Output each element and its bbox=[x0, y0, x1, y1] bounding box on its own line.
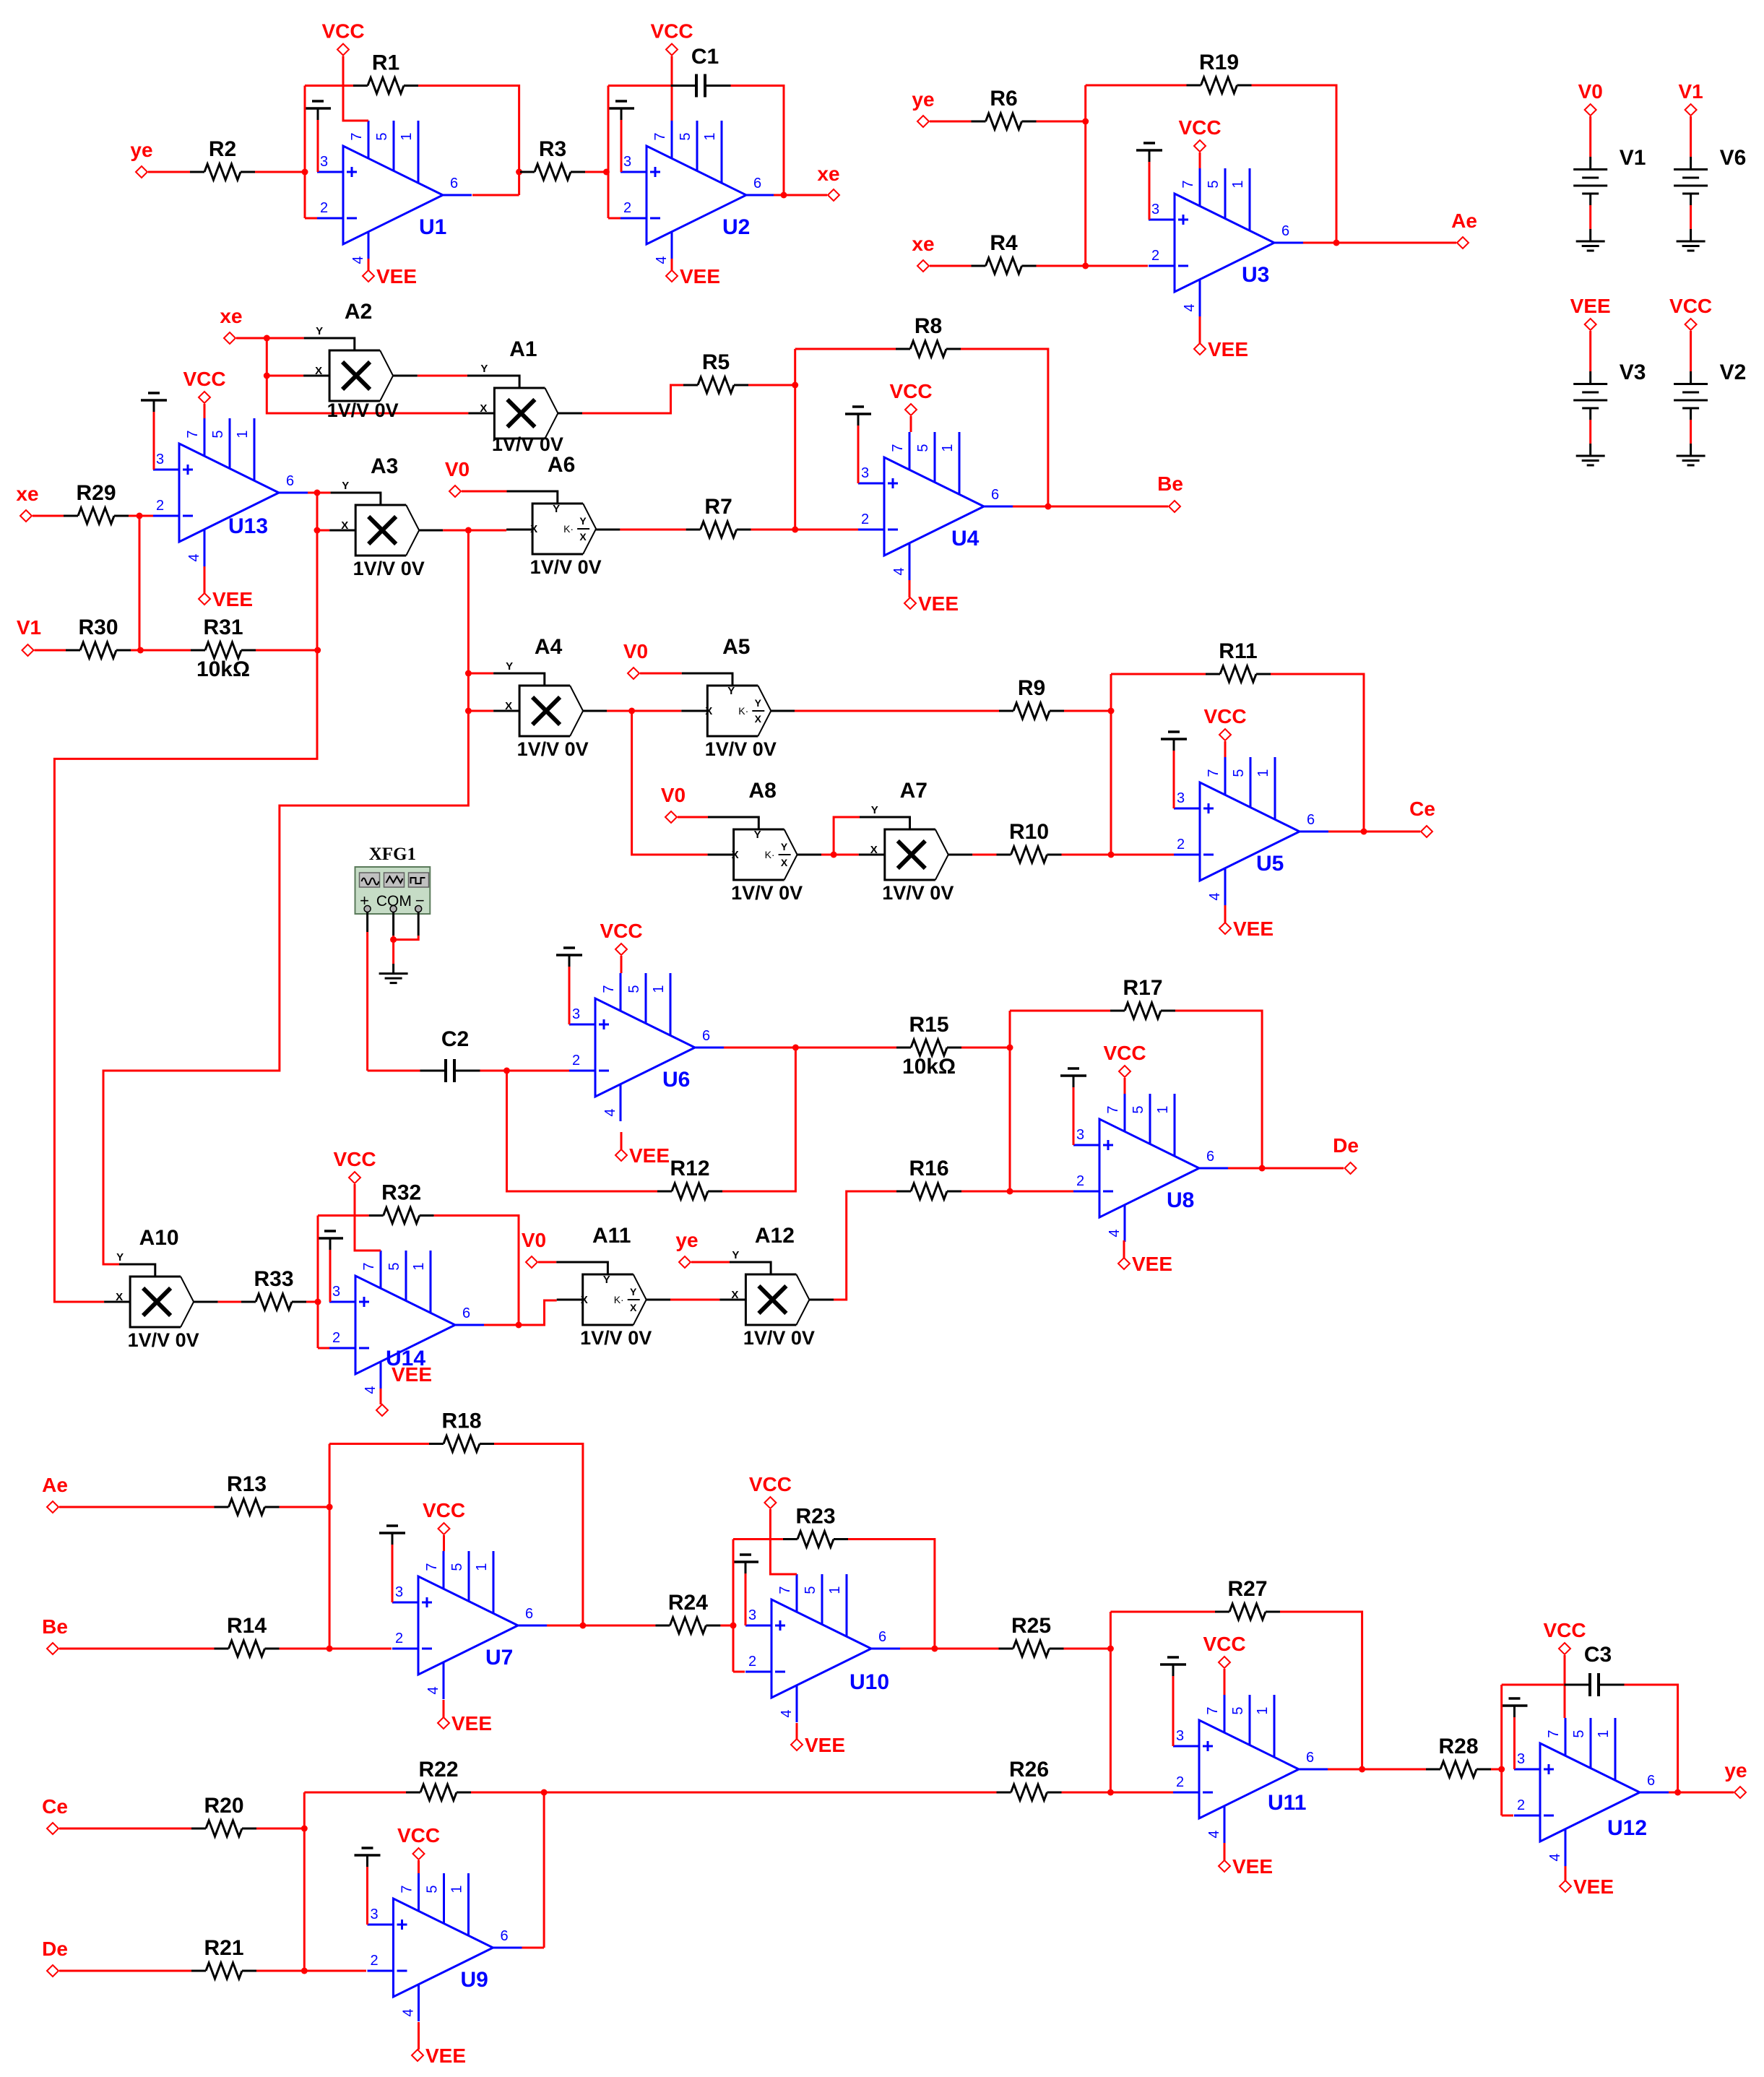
wire U11 input vertical bbox=[1110, 1612, 1112, 1792]
wire U12 pin4 to VEE bbox=[1565, 1866, 1567, 1880]
wire A4 X feed bbox=[468, 710, 493, 712]
wire U12 output to ye bbox=[1678, 1792, 1734, 1794]
svg-text:1: 1 bbox=[411, 1262, 427, 1270]
wire U7 feedback rail left bbox=[329, 1443, 429, 1445]
wire U5 pin4 to VEE bbox=[1224, 905, 1227, 923]
svg-text:3: 3 bbox=[861, 465, 869, 481]
op-amp U5 bbox=[1174, 757, 1328, 905]
wire U4 pin4 to VEE bbox=[909, 580, 911, 597]
terminal xe (A2 input) bbox=[220, 305, 242, 344]
terminal xe (R29 input) bbox=[16, 483, 38, 522]
wire U7 pin6 bbox=[547, 1625, 583, 1627]
svg-text:VEE: VEE bbox=[1570, 295, 1611, 317]
resistor R1 bbox=[353, 51, 418, 94]
svg-text:De: De bbox=[1333, 1134, 1359, 1157]
wire U12 pin2 bbox=[1502, 1815, 1513, 1817]
svg-text:ye: ye bbox=[912, 88, 934, 111]
wire U2 feedback rail left bbox=[608, 85, 671, 87]
wire U11 out to R28 bbox=[1362, 1769, 1426, 1771]
svg-text:6: 6 bbox=[753, 176, 761, 191]
wire U4 input vertical bbox=[794, 349, 796, 530]
svg-text:5: 5 bbox=[678, 132, 693, 140]
resistor R27 bbox=[1215, 1577, 1280, 1620]
svg-text:R9: R9 bbox=[1018, 676, 1045, 700]
svg-text:7: 7 bbox=[185, 430, 201, 438]
svg-text:7: 7 bbox=[890, 444, 906, 452]
wire A5 X feed bbox=[632, 710, 682, 712]
wire xe node vertical bbox=[267, 338, 468, 413]
svg-text:4: 4 bbox=[401, 2008, 417, 2016]
resistor R28 bbox=[1426, 1735, 1491, 1777]
wire U10 pin4 to VEE bbox=[796, 1723, 798, 1739]
wire U2 pin2 bbox=[608, 217, 621, 220]
svg-text:4: 4 bbox=[1207, 892, 1223, 900]
multiplier A2 bbox=[267, 300, 398, 421]
terminal Be (output) bbox=[1157, 472, 1183, 512]
svg-text:1: 1 bbox=[235, 430, 251, 438]
wire U3 pin6 bbox=[1303, 242, 1336, 244]
svg-text:R24: R24 bbox=[668, 1591, 708, 1615]
multiplier A1 bbox=[467, 337, 563, 455]
divider A11 bbox=[556, 1224, 652, 1349]
power VEE (U7) bbox=[438, 1712, 492, 1735]
svg-text:U7: U7 bbox=[485, 1646, 513, 1670]
svg-text:A8: A8 bbox=[748, 779, 776, 803]
power VEE (U13) bbox=[199, 588, 253, 610]
svg-text:A5: A5 bbox=[722, 635, 750, 659]
node U1 inverting input (junction) bbox=[302, 169, 308, 176]
resistor R7 bbox=[686, 495, 751, 537]
wire U14 out to A11 X bbox=[519, 1300, 557, 1325]
node U3 output (junction) bbox=[1333, 240, 1340, 246]
wire R12 to U6 output bbox=[722, 1048, 795, 1191]
wire A7 X feed bbox=[834, 854, 859, 856]
svg-text:7: 7 bbox=[424, 1563, 440, 1571]
power VCC (U4) bbox=[889, 380, 932, 415]
wire R15 to U8 node bbox=[961, 1047, 1010, 1049]
svg-text:U10: U10 bbox=[849, 1670, 889, 1694]
svg-text:1V/V 0V: 1V/V 0V bbox=[731, 882, 803, 904]
svg-text:V1: V1 bbox=[1620, 146, 1646, 170]
svg-text:5: 5 bbox=[449, 1563, 465, 1571]
svg-text:VCC: VCC bbox=[650, 20, 693, 43]
op-amp U2 bbox=[621, 121, 775, 269]
wire V0 to A11 Y bbox=[538, 1261, 556, 1264]
wire U14 pin2 bbox=[318, 1347, 329, 1350]
svg-text:VEE: VEE bbox=[805, 1734, 845, 1756]
svg-text:1: 1 bbox=[1155, 1105, 1171, 1113]
wire R1 to U1 output bbox=[418, 86, 519, 196]
svg-text:2: 2 bbox=[320, 200, 328, 216]
svg-text:R11: R11 bbox=[1219, 639, 1257, 663]
wire U8 pin6 bbox=[1228, 1167, 1262, 1170]
node U8 output junction bbox=[1259, 1165, 1266, 1172]
svg-text:2: 2 bbox=[1076, 1173, 1084, 1189]
svg-text:5: 5 bbox=[1130, 1105, 1146, 1113]
svg-text:VCC: VCC bbox=[423, 1499, 465, 1521]
wire R3 to U2 node bbox=[585, 171, 606, 173]
svg-text:U1: U1 bbox=[419, 215, 446, 239]
ground (XFG1) bbox=[379, 974, 408, 983]
svg-text:U4: U4 bbox=[951, 527, 980, 550]
svg-text:5: 5 bbox=[915, 444, 931, 452]
wire VCC to U12 pin7 bbox=[1564, 1655, 1566, 1718]
svg-text:3: 3 bbox=[156, 452, 164, 467]
wire U6 node down to R12 bbox=[507, 1071, 658, 1191]
op-amp U8 bbox=[1073, 1094, 1228, 1242]
wire U2 input node vertical bbox=[608, 86, 610, 219]
svg-text:7: 7 bbox=[1206, 769, 1222, 777]
ground (U4 pin3) bbox=[845, 407, 871, 483]
wire R9 to U5 node bbox=[1064, 710, 1111, 712]
svg-text:4: 4 bbox=[891, 567, 907, 575]
wire R11 to U5 output bbox=[1271, 674, 1364, 832]
svg-text:R22: R22 bbox=[418, 1758, 458, 1782]
wire VCC to U11 pin7 bbox=[1224, 1669, 1226, 1695]
svg-text:V3: V3 bbox=[1620, 360, 1646, 384]
svg-text:Y: Y bbox=[732, 1249, 739, 1261]
svg-text:VEE: VEE bbox=[1233, 917, 1274, 940]
wire U9 pin2 bbox=[304, 1970, 366, 1972]
wire R29 node down bbox=[139, 516, 141, 650]
wire ye to R2 bbox=[148, 171, 190, 173]
resistor R3 bbox=[520, 137, 585, 180]
svg-text:5: 5 bbox=[1230, 1706, 1246, 1714]
node U7 output junction bbox=[579, 1623, 586, 1629]
svg-text:1V/V 0V: 1V/V 0V bbox=[882, 882, 954, 904]
svg-text:R23: R23 bbox=[795, 1505, 835, 1529]
svg-text:10kΩ: 10kΩ bbox=[196, 657, 250, 681]
svg-text:R10: R10 bbox=[1009, 820, 1049, 844]
svg-text:VCC: VCC bbox=[1203, 705, 1246, 727]
wire A4 output bbox=[583, 710, 632, 712]
svg-text:R5: R5 bbox=[702, 350, 730, 374]
svg-text:6: 6 bbox=[462, 1305, 470, 1321]
svg-text:R13: R13 bbox=[227, 1472, 267, 1496]
wire VCC to U5 pin7 bbox=[1224, 741, 1227, 757]
svg-text:2: 2 bbox=[572, 1053, 580, 1068]
node R15 junction (U8) bbox=[1007, 1045, 1013, 1051]
svg-text:R28: R28 bbox=[1438, 1735, 1478, 1758]
wire R8 to U4 output bbox=[961, 349, 1048, 506]
svg-text:6: 6 bbox=[286, 473, 294, 489]
svg-text:VCC: VCC bbox=[1103, 1042, 1146, 1064]
ground (U10 pin3) bbox=[732, 1555, 758, 1625]
svg-text:Y: Y bbox=[630, 1286, 637, 1297]
svg-text:1: 1 bbox=[1230, 180, 1246, 188]
wire U9 pin6 bbox=[522, 1947, 545, 1949]
ground (U5 pin3) bbox=[1161, 732, 1187, 808]
svg-text:U13: U13 bbox=[228, 514, 268, 538]
svg-text:5: 5 bbox=[425, 1885, 441, 1893]
wire U10 input vertical bbox=[732, 1540, 735, 1672]
power VCC (U7) bbox=[423, 1499, 465, 1534]
resistor R25 bbox=[999, 1614, 1064, 1657]
resistor R29 bbox=[64, 481, 129, 524]
node A4 output junction bbox=[628, 708, 635, 714]
svg-text:5: 5 bbox=[803, 1586, 818, 1594]
resistor R2 bbox=[190, 137, 255, 180]
multiplier A3 bbox=[329, 454, 425, 579]
node R25 junction (U11) bbox=[1107, 1646, 1114, 1652]
wire U7 input vertical bbox=[329, 1444, 331, 1649]
svg-text:VCC: VCC bbox=[600, 920, 642, 942]
power VCC (U9) bbox=[397, 1824, 440, 1860]
svg-text:R7: R7 bbox=[704, 495, 732, 519]
svg-text:xe: xe bbox=[817, 163, 839, 185]
svg-text:VEE: VEE bbox=[376, 265, 417, 288]
svg-text:5: 5 bbox=[374, 132, 390, 140]
wire R4 to U3 node bbox=[1037, 265, 1086, 267]
svg-text:U6: U6 bbox=[662, 1068, 690, 1092]
svg-text:2: 2 bbox=[748, 1654, 756, 1670]
node A2 X junction bbox=[264, 373, 270, 379]
svg-text:X: X bbox=[630, 1302, 637, 1313]
resistor R31 bbox=[191, 616, 256, 681]
terminal V0 (A11 Y) bbox=[522, 1229, 546, 1268]
node R3 tap (junction) bbox=[516, 169, 522, 176]
node U14 input junction bbox=[315, 1299, 321, 1305]
wire U6 pin6 bbox=[724, 1047, 795, 1049]
resistor R15 bbox=[896, 1013, 961, 1079]
wire VCC to U3 pin7 bbox=[1199, 152, 1201, 168]
wire C1 to U2 output bbox=[731, 86, 784, 196]
svg-text:X: X bbox=[579, 531, 587, 543]
wire U14 feedback rail left bbox=[318, 1214, 369, 1217]
wire U7 pin4 to VEE bbox=[443, 1700, 445, 1717]
terminal De (output) bbox=[1333, 1134, 1359, 1174]
wire U11 pin6 bbox=[1328, 1769, 1362, 1771]
power VCC (U8) bbox=[1103, 1042, 1146, 1077]
svg-text:1V/V 0V: 1V/V 0V bbox=[353, 558, 425, 579]
op-amp U14 bbox=[329, 1251, 484, 1399]
svg-text:ye: ye bbox=[675, 1229, 698, 1251]
svg-text:R3: R3 bbox=[539, 137, 566, 161]
svg-text:U2: U2 bbox=[722, 215, 750, 239]
resistor R26 bbox=[997, 1758, 1062, 1800]
wire A3 output bbox=[419, 530, 468, 532]
svg-text:1: 1 bbox=[1255, 1706, 1271, 1714]
terminal ye (A12 Y) bbox=[675, 1229, 698, 1268]
wire U3 output to Ae bbox=[1336, 242, 1456, 244]
svg-text:VCC: VCC bbox=[1669, 295, 1712, 317]
terminal Ae (input) bbox=[42, 1474, 68, 1513]
wire R23 to U10 output bbox=[848, 1540, 935, 1649]
svg-text:C1: C1 bbox=[691, 45, 719, 69]
svg-text:U11: U11 bbox=[1268, 1791, 1306, 1815]
svg-text:3: 3 bbox=[1151, 202, 1159, 217]
node U14 output junction bbox=[516, 1322, 522, 1329]
svg-text:5: 5 bbox=[210, 430, 226, 438]
svg-text:6: 6 bbox=[702, 1028, 710, 1044]
svg-text:3: 3 bbox=[572, 1006, 580, 1022]
resistor R21 bbox=[191, 1936, 256, 1979]
svg-text:2: 2 bbox=[371, 1953, 379, 1969]
ground (U11 pin3) bbox=[1160, 1657, 1186, 1746]
wire XFG1 minus bbox=[394, 912, 419, 940]
terminal ye (input) bbox=[130, 139, 152, 178]
wire U2 output to xe bbox=[784, 194, 827, 197]
node U5 output junction bbox=[1361, 829, 1367, 835]
svg-text:V0: V0 bbox=[522, 1229, 546, 1251]
resistor R8 bbox=[896, 314, 961, 357]
wire A8 output bbox=[797, 854, 834, 856]
wire xe to R4 bbox=[930, 265, 972, 267]
svg-text:1: 1 bbox=[940, 444, 956, 452]
svg-text:Y: Y bbox=[342, 480, 349, 492]
node A3 X junction bbox=[314, 527, 321, 534]
svg-text:5: 5 bbox=[1206, 180, 1222, 188]
wire VCC to U4 pin7 bbox=[910, 416, 912, 432]
svg-text:K·: K· bbox=[614, 1294, 624, 1305]
svg-text:Ce: Ce bbox=[42, 1795, 68, 1818]
svg-text:R29: R29 bbox=[76, 481, 116, 505]
wire A3 X feed bbox=[317, 530, 329, 532]
terminal Be (input) bbox=[42, 1615, 68, 1654]
svg-text:X: X bbox=[755, 713, 762, 725]
wire R5 to U4 node bbox=[748, 384, 795, 387]
svg-text:5: 5 bbox=[626, 985, 642, 993]
terminal V0 (A5 Y) bbox=[623, 640, 648, 679]
svg-text:V6: V6 bbox=[1720, 146, 1747, 170]
svg-text:V0: V0 bbox=[445, 458, 470, 480]
wire De to R21 bbox=[59, 1970, 191, 1972]
svg-text:2: 2 bbox=[1517, 1797, 1525, 1813]
wire U11 pin4 to VEE bbox=[1224, 1843, 1226, 1860]
svg-text:4: 4 bbox=[1547, 1853, 1563, 1861]
svg-text:Y: Y bbox=[727, 685, 735, 697]
svg-text:U12: U12 bbox=[1607, 1816, 1647, 1840]
node A2 Y junction bbox=[264, 335, 270, 342]
node R21/pin2 junction (U9) bbox=[301, 1968, 308, 1974]
wire R32 to U14 output bbox=[434, 1216, 519, 1326]
svg-text:A6: A6 bbox=[548, 453, 575, 477]
svg-text:Y: Y bbox=[754, 829, 761, 841]
wire R31 to trunk bbox=[256, 649, 318, 652]
svg-text:Be: Be bbox=[1157, 472, 1183, 495]
resistor R20 bbox=[191, 1794, 256, 1836]
node R29 junction bbox=[137, 513, 143, 519]
svg-text:K·: K· bbox=[563, 523, 574, 535]
svg-text:C2: C2 bbox=[441, 1027, 469, 1051]
svg-text:6: 6 bbox=[1306, 1750, 1314, 1766]
wire C3 to U12 output bbox=[1625, 1685, 1678, 1792]
node U2 inverting input (junction) bbox=[603, 169, 610, 176]
resistor R18 bbox=[429, 1409, 494, 1452]
resistor R10 bbox=[997, 820, 1062, 863]
wire R6 to U3 node bbox=[1037, 121, 1086, 123]
power VCC (U13) bbox=[183, 368, 225, 403]
capacitor C3 bbox=[1565, 1643, 1625, 1696]
svg-text:VEE: VEE bbox=[680, 265, 720, 288]
power VCC (U3) bbox=[1178, 116, 1221, 152]
svg-text:7: 7 bbox=[349, 132, 365, 140]
svg-text:R33: R33 bbox=[254, 1267, 293, 1291]
power VCC (U11) bbox=[1203, 1633, 1245, 1668]
battery V3 (VEE source) bbox=[1570, 295, 1646, 465]
resistor R17 bbox=[1110, 976, 1175, 1019]
svg-text:Y: Y bbox=[116, 1251, 124, 1264]
svg-text:4: 4 bbox=[602, 1108, 618, 1116]
ground (U6 pin3) bbox=[556, 948, 582, 1024]
wire U12 input vertical bbox=[1500, 1685, 1503, 1815]
svg-text:1V/V 0V: 1V/V 0V bbox=[492, 433, 563, 455]
svg-text:VCC: VCC bbox=[1203, 1633, 1245, 1655]
svg-text:3: 3 bbox=[371, 1907, 379, 1922]
power VEE (U10) bbox=[791, 1734, 845, 1756]
svg-text:V0: V0 bbox=[661, 784, 686, 806]
svg-text:6: 6 bbox=[1206, 1149, 1214, 1165]
svg-text:ye: ye bbox=[130, 139, 152, 161]
wire A6 X feed bbox=[468, 530, 506, 532]
svg-text:1V/V 0V: 1V/V 0V bbox=[743, 1327, 815, 1349]
node R7/pin2 junction (U4) bbox=[792, 527, 798, 533]
ground (U3 pin3) bbox=[1136, 143, 1162, 220]
svg-text:2: 2 bbox=[332, 1330, 340, 1346]
wire R24 to U10 node bbox=[720, 1625, 733, 1627]
resistor R11 bbox=[1206, 639, 1271, 682]
svg-text:10kΩ: 10kΩ bbox=[902, 1055, 956, 1079]
op-amp U10 bbox=[745, 1574, 900, 1722]
wire U1 feedback rail left bbox=[305, 85, 353, 87]
ground (U2 pin3) bbox=[608, 101, 634, 172]
node R14/pin2 junction (U7) bbox=[327, 1646, 333, 1652]
terminal ye (output) bbox=[1724, 1759, 1747, 1798]
wire U13 pin6 to A3 bbox=[308, 492, 331, 494]
svg-text:VEE: VEE bbox=[392, 1363, 432, 1386]
svg-text:Y: Y bbox=[316, 325, 323, 337]
svg-text:1: 1 bbox=[702, 132, 718, 140]
wire VCC to U2 pin7 bbox=[671, 56, 673, 121]
wire U3 pin4 to VEE bbox=[1199, 316, 1201, 343]
wire XFG1 COM to ground bbox=[392, 940, 394, 974]
capacitor C1 bbox=[671, 45, 731, 98]
svg-text:VEE: VEE bbox=[629, 1144, 670, 1167]
wire VCC to U6 pin7 bbox=[621, 956, 623, 973]
svg-text:3: 3 bbox=[1076, 1127, 1084, 1143]
wire U10 pin2 bbox=[733, 1671, 745, 1673]
resistor R5 bbox=[683, 350, 748, 393]
resistor R16 bbox=[896, 1157, 961, 1199]
wire U8 output to De bbox=[1262, 1167, 1344, 1170]
wire U12 pin6 bbox=[1669, 1792, 1678, 1794]
ground (U8 pin3) bbox=[1060, 1068, 1086, 1145]
wire U10 pin6 bbox=[900, 1648, 935, 1650]
svg-text:VCC: VCC bbox=[1543, 1619, 1586, 1641]
svg-text:3: 3 bbox=[748, 1607, 756, 1623]
op-amp U9 bbox=[368, 1873, 522, 2021]
svg-text:U8: U8 bbox=[1167, 1188, 1194, 1212]
wire A4 Y feed bbox=[468, 673, 493, 675]
svg-text:Y: Y bbox=[781, 841, 788, 852]
svg-text:R15: R15 bbox=[909, 1013, 948, 1037]
terminal Ce (output) bbox=[1409, 798, 1435, 837]
wire U4 output to Be bbox=[1048, 506, 1168, 508]
wire xe to A2 node bbox=[236, 337, 267, 340]
node R10/pin2 junction (U5) bbox=[1108, 852, 1115, 858]
svg-text:3: 3 bbox=[395, 1584, 403, 1600]
svg-text:2: 2 bbox=[1177, 837, 1185, 852]
svg-text:Y: Y bbox=[871, 804, 878, 816]
node U4 output junction bbox=[1045, 504, 1051, 510]
svg-text:R30: R30 bbox=[78, 616, 118, 639]
svg-text:A12: A12 bbox=[755, 1224, 795, 1248]
svg-text:7: 7 bbox=[652, 132, 668, 140]
wire C2 to U6 node bbox=[480, 1070, 507, 1072]
wire R28 to U12 node bbox=[1491, 1769, 1502, 1771]
resistor R9 bbox=[999, 676, 1064, 719]
svg-text:R17: R17 bbox=[1123, 976, 1162, 1000]
